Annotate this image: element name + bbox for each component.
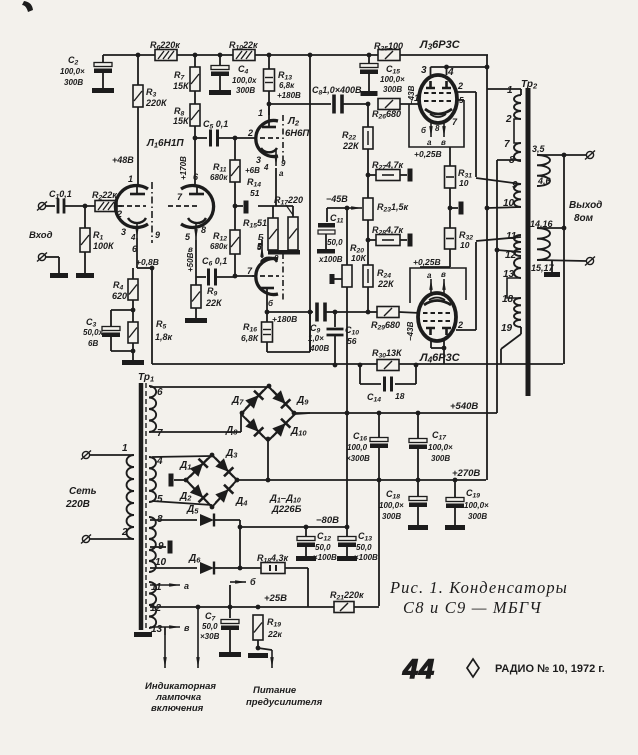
resistor R21 220k (334, 602, 354, 613)
svg-text:3: 3 (421, 65, 427, 76)
svg-text:56: 56 (347, 336, 357, 346)
wire (235, 205, 243, 207)
wire (487, 88, 521, 90)
wire (268, 55, 270, 69)
svg-text:1: 1 (258, 108, 263, 118)
wire (500, 349, 502, 364)
svg-text:б: б (250, 577, 256, 587)
capacitor C1 0,1 (57, 199, 60, 214)
wire (194, 91, 196, 104)
svg-text:400В: 400В (309, 344, 329, 353)
svg-text:300В: 300В (236, 86, 255, 95)
L2b grid (252, 275, 279, 277)
svg-text:300В: 300В (64, 78, 83, 87)
svg-text:6Н6П: 6Н6П (285, 128, 309, 139)
ground bar under R15 R17 (268, 250, 300, 255)
ground (337, 556, 357, 561)
svg-text:в: в (441, 270, 446, 279)
wire (219, 137, 252, 139)
svg-text:680к: 680к (210, 173, 228, 182)
wire (367, 287, 369, 312)
resistor R19 22k (253, 615, 263, 640)
wire (268, 104, 270, 118)
wire (65, 205, 95, 207)
ground (544, 272, 560, 277)
wire (110, 335, 112, 351)
L3 anode arc (425, 109, 452, 114)
terminal bar (168, 541, 173, 554)
R28 terminal bar (408, 234, 413, 247)
ground (92, 88, 114, 93)
wire (537, 154, 586, 156)
svg-text:R3013К: R3013К (372, 348, 403, 360)
svg-text:3,5: 3,5 (532, 144, 546, 154)
svg-text:Д3: Д3 (225, 448, 238, 460)
svg-text:+25В: +25В (264, 593, 287, 604)
wire (90, 454, 133, 456)
node -80V rail (240, 526, 347, 528)
wire (266, 312, 268, 322)
wire (152, 501, 212, 505)
wire (457, 99, 464, 101)
svg-text:R274,7к: R274,7к (372, 160, 404, 172)
svg-text:100,0×: 100,0× (380, 75, 405, 84)
wire (229, 607, 231, 618)
L2a anode (262, 126, 276, 129)
Tr1 winding 4-5 (149, 457, 156, 502)
svg-text:+270В: +270В (452, 468, 480, 479)
svg-text:Тр1: Тр1 (138, 372, 154, 384)
wire (150, 546, 166, 548)
L1b grid (168, 205, 200, 207)
wire (150, 386, 268, 388)
diode D5 (200, 514, 214, 526)
wire (257, 640, 259, 650)
wire (443, 341, 445, 348)
svg-text:19: 19 (501, 323, 513, 334)
L3 heater bars (426, 81, 435, 88)
tap b arrow (230, 581, 246, 583)
svg-text:в: в (441, 138, 446, 147)
wire (420, 266, 450, 268)
resistor R11 680k (230, 160, 240, 182)
L1a grid (119, 205, 146, 207)
Tr1 winding 11-13 (149, 582, 156, 628)
wire (151, 268, 153, 364)
svg-text:С6 0,1: С6 0,1 (202, 256, 227, 268)
ground (122, 360, 144, 365)
svg-text:4: 4 (263, 163, 269, 172)
bridge D1-D4 (186, 455, 212, 480)
node top supply bus (103, 54, 155, 56)
svg-text:×30В: ×30В (200, 632, 220, 641)
output terminal - (586, 257, 593, 264)
svg-text:100,0×: 100,0× (464, 501, 489, 510)
tap bar (459, 202, 464, 215)
svg-text:Д9: Д9 (296, 395, 309, 407)
wire (111, 309, 133, 311)
bridge D7-D10 (241, 386, 268, 414)
capacitor C3 50,0x6V (102, 327, 120, 331)
resistor R9 22k (191, 285, 201, 308)
capacitor C14 18 (383, 377, 386, 392)
resistor R16 6,8k (262, 322, 273, 342)
svg-text:Д226Б: Д226Б (271, 504, 302, 515)
wire (457, 91, 476, 93)
svg-text:+170В: +170В (179, 156, 188, 180)
capacitor C12 50,0x100V (297, 537, 315, 541)
wire (117, 205, 122, 207)
wire (219, 55, 221, 66)
svg-text:15К: 15К (173, 116, 190, 126)
R27 terminal bar (408, 169, 413, 182)
resistor R22 22k (363, 127, 373, 149)
capacitor C4 100,0x300V (211, 66, 229, 70)
heater pin arrow (443, 120, 445, 137)
capacitor C19 100,0x300V (446, 498, 464, 502)
svg-text:6,8К: 6,8К (241, 333, 259, 343)
svg-text:а: а (427, 138, 432, 147)
svg-text:в: в (184, 623, 190, 633)
wire (400, 103, 420, 105)
indicator lamp lead (164, 635, 166, 668)
wire (136, 238, 138, 268)
svg-text:6В: 6В (88, 339, 98, 348)
wire (446, 67, 448, 75)
svg-text:10: 10 (155, 557, 167, 568)
resistor R4 620 (128, 279, 138, 300)
capacitor C14 18 loop (359, 365, 361, 384)
Tr2 secondary 3,5-4,6 (537, 155, 550, 186)
L4 heater bars (426, 328, 435, 335)
svg-text:100,0×: 100,0× (428, 443, 453, 452)
L1b cathode lead (195, 222, 197, 240)
resistor R20 10k (342, 265, 352, 287)
wire (417, 480, 419, 496)
wire (152, 456, 212, 457)
svg-text:+48В: +48В (112, 155, 134, 165)
corner mark (22, 1, 33, 12)
svg-text:R231,5к: R231,5к (377, 202, 409, 214)
svg-text:9: 9 (155, 230, 160, 240)
resistor R27 4,7k (376, 170, 400, 181)
svg-text:100К: 100К (93, 241, 115, 251)
mains terminal 1 (82, 451, 89, 458)
svg-text:+6В: +6В (245, 166, 260, 175)
wire (150, 567, 197, 569)
svg-text:50,0: 50,0 (356, 543, 372, 552)
svg-text:1,0×: 1,0× (308, 334, 324, 343)
svg-text:680к: 680к (210, 242, 228, 251)
svg-text:7: 7 (504, 139, 510, 150)
transformer Tr1 core (139, 383, 144, 630)
svg-text:100,0х: 100,0х (232, 76, 257, 85)
output terminal + (586, 151, 593, 158)
wire (334, 278, 342, 280)
diode D3 (211, 454, 238, 482)
resistor R28 4,7k (376, 235, 400, 246)
diode D8 (241, 414, 268, 442)
svg-text:а: а (279, 169, 284, 178)
wire (431, 66, 487, 68)
wire (537, 227, 564, 229)
svg-text:Л16Н1П: Л16Н1П (146, 138, 184, 150)
wire (174, 479, 186, 481)
wire (342, 103, 368, 105)
svg-text:220К: 220К (145, 98, 168, 108)
wire (292, 206, 294, 217)
svg-text:С5 0,1: С5 0,1 (203, 119, 228, 131)
resistor R31 10 (445, 166, 456, 188)
svg-text:Д2: Д2 (179, 491, 192, 503)
wire (334, 312, 336, 327)
svg-text:220В: 220В (65, 499, 90, 510)
wire (150, 519, 197, 521)
resistor R8 15k (190, 104, 200, 126)
svg-text:22К: 22К (342, 141, 360, 151)
resistor R17 220 (288, 217, 298, 250)
capacitor C9 1,0x400V (315, 303, 319, 322)
wire (400, 239, 407, 241)
svg-text:×300В: ×300В (346, 454, 370, 463)
resistor R5 1,8k (128, 322, 138, 343)
svg-text:4: 4 (130, 233, 136, 242)
svg-text:5: 5 (257, 242, 262, 251)
mains terminal 2 (82, 535, 89, 542)
wire (346, 208, 348, 265)
wire (476, 178, 521, 184)
wire (195, 308, 197, 318)
svg-text:11: 11 (506, 231, 517, 242)
wire (150, 431, 241, 433)
svg-text:4: 4 (447, 67, 454, 78)
wire (378, 480, 380, 606)
wire (58, 257, 60, 273)
wire (132, 300, 134, 322)
wire (240, 567, 261, 569)
tube L1 6N1P half A (115, 186, 148, 228)
wire (551, 261, 553, 272)
svg-text:−45В: −45В (326, 194, 348, 204)
wire (46, 256, 59, 258)
svg-text:R25100: R25100 (374, 41, 403, 53)
L2a cathode (261, 148, 277, 152)
wire (132, 343, 134, 360)
heater pin arrow (430, 279, 432, 293)
L1a cathode lead (136, 222, 138, 238)
node NFB rail (152, 363, 377, 365)
resistor R24 22k (363, 265, 373, 287)
wire (430, 67, 432, 75)
svg-text:2: 2 (247, 128, 253, 138)
tap a arrow (150, 584, 180, 586)
wire (327, 207, 347, 209)
svg-text:300В: 300В (382, 512, 401, 521)
svg-text:5: 5 (157, 494, 163, 505)
wire (102, 55, 104, 63)
svg-text:+0,25В: +0,25В (413, 257, 441, 267)
wire (229, 585, 231, 607)
wire (164, 627, 166, 635)
svg-text:3: 3 (121, 227, 126, 237)
ground (50, 273, 68, 278)
resistor R26 680 (378, 99, 400, 110)
wire (111, 350, 133, 352)
wire (368, 239, 376, 241)
svg-text:−80В: −80В (316, 515, 339, 526)
L2b anode (259, 287, 274, 290)
svg-text:7: 7 (157, 428, 163, 439)
wire (496, 160, 498, 413)
wire (487, 207, 521, 208)
node +540V rail (295, 412, 497, 414)
wire (497, 159, 521, 161)
L2a cathode arrow (275, 150, 277, 166)
tap v arrow (150, 626, 180, 628)
svg-text:Рис. 1. Конденсаторы: Рис. 1. Конденсаторы (389, 578, 568, 597)
svg-text:100,0: 100,0 (347, 443, 368, 452)
tube L4 6P3S (418, 293, 456, 341)
wire (258, 648, 272, 650)
terminal bar (169, 474, 174, 487)
indicator lamp lead (197, 607, 199, 668)
diode D2 (185, 480, 212, 508)
svg-text:9: 9 (281, 159, 286, 168)
resistor R7 15k (190, 67, 200, 91)
svg-text:1,8к: 1,8к (155, 332, 173, 342)
svg-text:10К: 10К (351, 253, 366, 263)
Tr2 primary 12-13 (514, 258, 521, 278)
resistor R12 680k (230, 230, 240, 254)
svg-text:300В: 300В (383, 85, 402, 94)
wire (367, 220, 369, 265)
wire (367, 149, 369, 198)
Tr2 primary 18-19 (514, 298, 521, 327)
svg-text:R17220: R17220 (274, 195, 303, 207)
diode D4 (211, 480, 238, 508)
svg-text:Д8: Д8 (225, 425, 238, 437)
svg-text:R29680: R29680 (371, 320, 400, 332)
wire (84, 206, 86, 228)
wire (368, 311, 377, 313)
svg-text:предусилителя: предусилителя (246, 697, 323, 708)
svg-text:РАДИО № 10, 1972 г.: РАДИО № 10, 1972 г. (495, 663, 605, 675)
wire (417, 449, 419, 480)
svg-text:100,0×: 100,0× (379, 501, 404, 510)
wire (234, 182, 236, 230)
svg-text:13: 13 (151, 624, 163, 635)
wire (266, 342, 268, 352)
node +180V box (267, 351, 310, 353)
svg-text:300В: 300В (431, 454, 450, 463)
svg-text:50,0х: 50,0х (83, 328, 104, 337)
resistor R2 22k (95, 201, 117, 212)
resistor R29 680 (377, 307, 399, 318)
diode D10 (268, 414, 295, 442)
svg-text:10: 10 (460, 240, 470, 250)
svg-text:8: 8 (274, 254, 279, 263)
wire (378, 413, 380, 437)
wire (326, 208, 328, 222)
wire (346, 547, 348, 556)
wire (84, 252, 86, 273)
wire (195, 277, 197, 285)
tube L3 6P3S (419, 75, 457, 123)
svg-text:+540В: +540В (450, 401, 478, 412)
svg-text:2: 2 (505, 114, 512, 125)
wire (497, 250, 521, 252)
svg-text:8: 8 (201, 225, 206, 235)
wire (110, 310, 112, 327)
svg-text:12: 12 (150, 603, 162, 614)
wire (537, 260, 586, 261)
capacitor C5 0,1 (209, 130, 212, 147)
svg-text:2: 2 (121, 527, 128, 538)
wire (368, 174, 376, 176)
diode D6 (200, 562, 214, 574)
wire (520, 327, 522, 334)
svg-text:15,17: 15,17 (531, 263, 555, 273)
Tr1 winding 6-7 (149, 386, 156, 432)
wire (368, 74, 370, 91)
wire (235, 275, 254, 277)
wire (476, 237, 521, 241)
svg-text:а: а (184, 581, 189, 591)
svg-text:Д10: Д10 (290, 426, 307, 438)
wire (132, 268, 134, 279)
svg-text:6,8к: 6,8к (279, 81, 295, 90)
capacitor C10 56 (327, 328, 344, 331)
L1a cathode (128, 218, 146, 223)
svg-text:Питание: Питание (253, 685, 297, 696)
svg-text:Д5: Д5 (186, 504, 199, 516)
wire (240, 414, 242, 432)
svg-text:Д7: Д7 (231, 395, 244, 407)
wire (194, 126, 196, 184)
ground (76, 273, 94, 278)
wire (266, 296, 268, 312)
ground (248, 653, 268, 658)
svg-text:Л2: Л2 (287, 116, 300, 128)
preamp supply lead (271, 650, 273, 668)
wire (137, 267, 152, 269)
wire (305, 527, 307, 536)
resistor R3 220k (133, 85, 143, 107)
wire (475, 242, 477, 330)
svg-text:×100В: ×100В (354, 553, 378, 562)
wire (450, 207, 458, 209)
svg-text:Индикаторная: Индикаторная (145, 681, 216, 692)
resistor R6 220k (155, 50, 177, 61)
svg-text:13: 13 (503, 269, 515, 280)
wire (430, 341, 432, 348)
resistor R13 6,8k (264, 69, 275, 91)
svg-text:11: 11 (151, 582, 162, 593)
wire (563, 155, 565, 364)
resistor R10 22k (233, 50, 255, 61)
ground (185, 318, 207, 323)
svg-text:300В: 300В (468, 512, 487, 521)
capacitor C6 0,1 (207, 269, 210, 286)
winding jog 13-18 (507, 278, 521, 298)
wire (234, 138, 236, 160)
svg-text:620: 620 (112, 291, 127, 301)
ground (408, 525, 428, 530)
svg-text:R6220к: R6220к (150, 40, 180, 52)
wire (234, 254, 236, 276)
wire (400, 174, 407, 176)
ground (296, 556, 316, 561)
